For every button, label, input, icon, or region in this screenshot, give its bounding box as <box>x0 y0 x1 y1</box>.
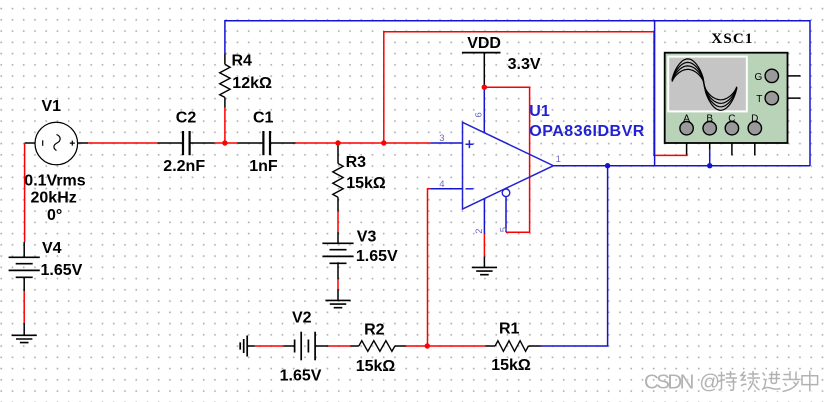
svg-text:1: 1 <box>556 154 561 165</box>
svg-text:2.2nF: 2.2nF <box>163 158 205 175</box>
svg-text:R2: R2 <box>364 322 385 339</box>
svg-text:12kΩ: 12kΩ <box>232 75 272 92</box>
svg-text:6: 6 <box>473 112 484 117</box>
svg-text:T: T <box>756 94 762 105</box>
svg-text:5: 5 <box>498 227 509 232</box>
svg-text:VDD: VDD <box>467 35 501 52</box>
svg-text:B: B <box>706 113 713 124</box>
svg-text:G: G <box>755 72 763 83</box>
svg-text:15kΩ: 15kΩ <box>346 175 386 192</box>
svg-text:15kΩ: 15kΩ <box>356 358 396 375</box>
svg-text:0°: 0° <box>47 207 62 224</box>
svg-text:2: 2 <box>474 229 485 234</box>
svg-text:1.65V: 1.65V <box>41 262 83 279</box>
svg-text:R4: R4 <box>232 52 253 69</box>
svg-text:D: D <box>751 113 758 124</box>
svg-text:15kΩ: 15kΩ <box>491 357 531 374</box>
svg-text:CSDN: CSDN <box>644 370 694 393</box>
svg-text:C2: C2 <box>176 110 197 127</box>
svg-text:@: @ <box>699 370 720 393</box>
svg-text:A: A <box>683 113 690 124</box>
svg-text:U1: U1 <box>529 103 550 120</box>
svg-text:20kHz: 20kHz <box>31 190 77 207</box>
svg-text:1nF: 1nF <box>249 158 278 175</box>
svg-text:C: C <box>728 113 735 124</box>
svg-text:1.65V: 1.65V <box>356 248 398 265</box>
svg-text:V2: V2 <box>292 309 312 326</box>
svg-text:4: 4 <box>439 179 444 190</box>
svg-text:V4: V4 <box>42 240 62 257</box>
svg-text:3.3V: 3.3V <box>508 56 541 73</box>
svg-text:3: 3 <box>439 133 444 144</box>
svg-text:V3: V3 <box>357 229 377 246</box>
svg-text:V1: V1 <box>42 98 62 115</box>
svg-text:R3: R3 <box>346 154 367 171</box>
svg-text:OPA836IDBVR: OPA836IDBVR <box>529 123 644 140</box>
svg-text:C1: C1 <box>253 110 274 127</box>
svg-text:1.65V: 1.65V <box>280 368 322 385</box>
svg-text:XSC1: XSC1 <box>711 31 753 47</box>
svg-text:R1: R1 <box>499 321 520 338</box>
svg-text:0.1Vrms: 0.1Vrms <box>24 172 85 189</box>
